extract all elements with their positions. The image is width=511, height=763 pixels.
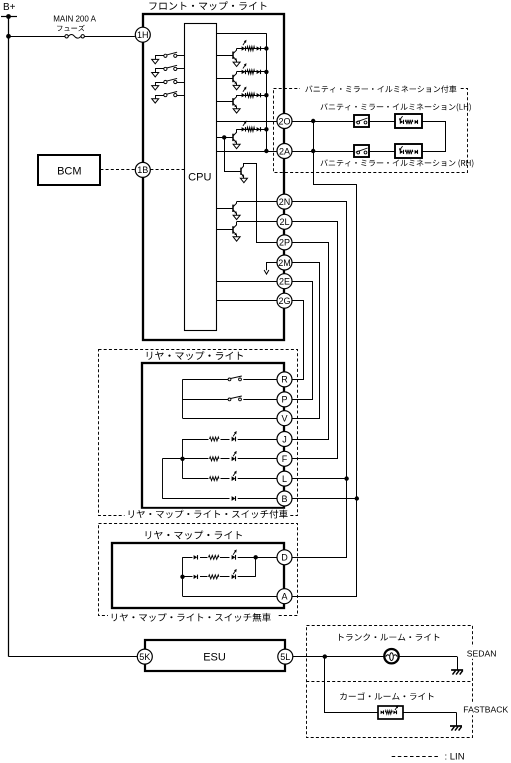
svg-text:F: F [282, 454, 288, 464]
svg-text:R: R [281, 375, 288, 385]
svg-text:A: A [281, 592, 287, 602]
svg-text:2E: 2E [279, 277, 290, 287]
svg-text:1H: 1H [137, 30, 149, 40]
svg-text:2A: 2A [279, 146, 290, 156]
svg-text:2M: 2M [278, 258, 291, 268]
svg-text:J: J [282, 434, 287, 444]
svg-text:: LIN: : LIN [445, 752, 465, 763]
svg-text:D: D [281, 553, 288, 563]
svg-text:BCM: BCM [57, 165, 81, 177]
svg-text:2L: 2L [279, 217, 289, 227]
svg-text:B+: B+ [3, 2, 16, 13]
svg-text:5K: 5K [139, 652, 150, 662]
svg-text:SEDAN: SEDAN [467, 648, 497, 658]
svg-text:CPU: CPU [188, 171, 211, 183]
svg-text:MAIN 200 A: MAIN 200 A [53, 15, 96, 24]
svg-text:P: P [281, 395, 287, 405]
svg-text:2N: 2N [279, 197, 291, 207]
svg-text:2P: 2P [279, 238, 290, 248]
svg-text:1B: 1B [137, 165, 148, 175]
svg-text:B: B [281, 494, 287, 504]
svg-text:L: L [282, 474, 287, 484]
svg-text:2G: 2G [278, 296, 290, 306]
svg-text:V: V [281, 414, 287, 424]
svg-text:5L: 5L [280, 652, 290, 662]
svg-text:2O: 2O [278, 116, 290, 126]
svg-text:FASTBACK: FASTBACK [463, 705, 508, 715]
svg-text:ESU: ESU [203, 652, 226, 664]
